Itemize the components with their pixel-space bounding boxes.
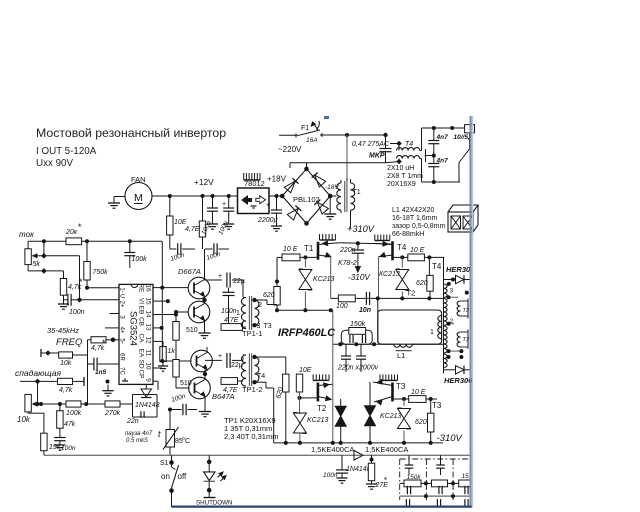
svg-text:*: * bbox=[78, 222, 82, 232]
svg-text:+: + bbox=[222, 201, 226, 208]
svg-text:FREQ: FREQ bbox=[56, 337, 83, 348]
svg-text:+18V: +18V bbox=[267, 175, 287, 184]
svg-text:1n5: 1n5 bbox=[95, 369, 107, 376]
svg-text:T3: T3 bbox=[463, 337, 470, 343]
svg-text:IRFP460LC: IRFP460LC bbox=[278, 327, 335, 339]
svg-text:10 E: 10 E bbox=[410, 247, 425, 254]
svg-text:CP: CP bbox=[138, 369, 145, 378]
svg-text:SD: SD bbox=[138, 359, 145, 368]
svg-text:100n: 100n bbox=[69, 309, 85, 316]
svg-text:KC213: KC213 bbox=[380, 413, 402, 420]
svg-text:1N4148: 1N4148 bbox=[135, 402, 160, 409]
svg-text:16-18T 1,6mm: 16-18T 1,6mm bbox=[392, 215, 438, 222]
svg-text:-310V: -310V bbox=[348, 273, 371, 282]
svg-text:F1: F1 bbox=[301, 125, 309, 132]
svg-text:15: 15 bbox=[462, 473, 470, 480]
svg-text:7C: 7C bbox=[119, 367, 125, 375]
svg-text:4,7k: 4,7k bbox=[59, 387, 73, 394]
svg-text:10k: 10k bbox=[17, 415, 31, 424]
svg-text:T2: T2 bbox=[317, 404, 327, 413]
svg-text:KC213: KC213 bbox=[307, 417, 329, 424]
svg-text:FAN: FAN bbox=[131, 175, 146, 184]
svg-text:T3: T3 bbox=[264, 323, 272, 330]
svg-text:Uxx 90V: Uxx 90V bbox=[36, 158, 73, 169]
svg-text:14: 14 bbox=[145, 310, 152, 318]
svg-text:13: 13 bbox=[145, 323, 152, 331]
svg-text:10 E: 10 E bbox=[411, 389, 426, 396]
svg-text:100n: 100n bbox=[323, 472, 338, 479]
svg-text:1,5KE400CA: 1,5KE400CA bbox=[311, 445, 354, 454]
svg-text:T1: T1 bbox=[304, 244, 314, 253]
svg-text:4,7E: 4,7E bbox=[223, 387, 238, 394]
svg-text:270k: 270k bbox=[104, 410, 121, 417]
svg-text:10: 10 bbox=[145, 362, 152, 370]
svg-text:620: 620 bbox=[263, 292, 275, 299]
svg-text:SHUTDOWN: SHUTDOWN bbox=[196, 500, 232, 507]
svg-text:off: off bbox=[178, 472, 188, 481]
svg-text:K78-2: K78-2 bbox=[338, 260, 357, 267]
svg-text:5k: 5k bbox=[33, 261, 41, 268]
svg-text:Мостовой резонансный инвертор: Мостовой резонансный инвертор bbox=[36, 126, 226, 140]
svg-text:on: on bbox=[161, 472, 170, 481]
svg-text:MKP: MKP bbox=[369, 153, 385, 160]
svg-text:T1: T1 bbox=[353, 189, 361, 196]
svg-text:SG3524: SG3524 bbox=[128, 311, 139, 346]
svg-text:20к: 20к bbox=[65, 229, 78, 236]
svg-text:1k: 1k bbox=[168, 348, 176, 355]
svg-text:100n: 100n bbox=[61, 445, 76, 452]
svg-text:S1: S1 bbox=[160, 460, 169, 467]
svg-text:C: C bbox=[185, 438, 190, 445]
svg-text:2200µ: 2200µ bbox=[257, 217, 278, 224]
svg-text:EA: EA bbox=[138, 349, 145, 358]
svg-text:12: 12 bbox=[145, 336, 152, 344]
svg-text:10E: 10E bbox=[174, 219, 187, 226]
svg-text:100: 100 bbox=[336, 303, 348, 310]
svg-text:1: 1 bbox=[236, 310, 240, 317]
svg-text:1: 1 bbox=[430, 329, 434, 336]
svg-text:M: M bbox=[134, 192, 143, 204]
svg-text:220n x2000v: 220n x2000v bbox=[337, 365, 379, 372]
svg-text:15: 15 bbox=[145, 297, 152, 305]
svg-text:T4: T4 bbox=[405, 141, 413, 148]
svg-text:66-88mkH: 66-88mkH bbox=[392, 231, 424, 238]
svg-text:2X8 T 1mm: 2X8 T 1mm bbox=[387, 173, 423, 180]
svg-text:T4: T4 bbox=[257, 373, 265, 380]
svg-text:510: 510 bbox=[186, 327, 198, 334]
svg-text:L1 42X42X20: L1 42X42X20 bbox=[392, 207, 435, 214]
svg-text:20X16X9: 20X16X9 bbox=[387, 181, 416, 188]
svg-text:100k: 100k bbox=[66, 410, 82, 417]
svg-text:+: + bbox=[266, 202, 270, 209]
svg-text:L1: L1 bbox=[397, 351, 405, 360]
svg-text:1,5KE400CA: 1,5KE400CA bbox=[365, 445, 408, 454]
svg-text:~220V: ~220V bbox=[278, 145, 302, 154]
svg-text:T3: T3 bbox=[396, 382, 406, 391]
svg-text:16: 16 bbox=[145, 284, 152, 292]
svg-text:22n: 22n bbox=[126, 418, 139, 425]
svg-text:6R: 6R bbox=[119, 353, 125, 361]
svg-text:0,47 275AC: 0,47 275AC bbox=[352, 141, 390, 148]
svg-text:VI: VI bbox=[138, 298, 145, 304]
svg-text:TP1-1: TP1-1 bbox=[242, 329, 262, 338]
svg-text:4n7: 4n7 bbox=[436, 158, 449, 165]
svg-text:зазор 0,5-0,8mm: зазор 0,5-0,8mm bbox=[392, 223, 446, 230]
svg-text:4n7: 4n7 bbox=[436, 134, 449, 141]
svg-text:11: 11 bbox=[145, 350, 152, 357]
svg-text:2X10 uH: 2X10 uH bbox=[387, 165, 414, 172]
svg-text:9: 9 bbox=[145, 378, 152, 382]
svg-text:10E: 10E bbox=[299, 367, 312, 374]
svg-text:EB: EB bbox=[138, 306, 145, 315]
svg-text:35-45kHz: 35-45kHz bbox=[47, 326, 79, 335]
svg-text:10k: 10k bbox=[60, 360, 72, 367]
svg-text:спадающая: спадающая bbox=[15, 368, 62, 378]
svg-text:I OUT 5-120A: I OUT 5-120A bbox=[36, 146, 97, 157]
svg-text:T3: T3 bbox=[463, 308, 470, 314]
svg-text:10 E: 10 E bbox=[283, 246, 298, 253]
svg-text:D667A: D667A bbox=[178, 267, 201, 276]
svg-text:4+: 4+ bbox=[119, 327, 125, 334]
svg-text:RE: RE bbox=[138, 283, 145, 293]
svg-text:CA: CA bbox=[138, 333, 145, 343]
svg-text:T4: T4 bbox=[397, 243, 407, 252]
svg-text:HER30: HER30 bbox=[446, 265, 471, 274]
svg-text:*: * bbox=[79, 277, 83, 287]
svg-text:47k: 47k bbox=[64, 421, 76, 428]
svg-text:620: 620 bbox=[416, 280, 428, 287]
svg-text:HER306: HER306 bbox=[444, 376, 473, 385]
svg-text:*: * bbox=[102, 338, 106, 348]
svg-text:+12V: +12V bbox=[194, 177, 214, 187]
svg-text:*: * bbox=[384, 476, 387, 485]
svg-text:10n: 10n bbox=[359, 307, 371, 314]
svg-text:+310V: +310V bbox=[347, 224, 375, 234]
svg-text:150k: 150k bbox=[407, 474, 422, 481]
svg-text:U: U bbox=[119, 294, 125, 298]
svg-text:-310V: -310V bbox=[437, 433, 464, 444]
svg-text:1N4148: 1N4148 bbox=[346, 466, 371, 473]
svg-text:PBL102: PBL102 bbox=[293, 195, 320, 204]
svg-text:750k: 750k bbox=[93, 269, 109, 276]
svg-text:4,7E: 4,7E bbox=[185, 226, 200, 233]
svg-text:2: 2 bbox=[450, 318, 454, 325]
svg-text:mок: mок bbox=[19, 230, 35, 239]
svg-text:CB: CB bbox=[138, 317, 145, 326]
svg-text:2+: 2+ bbox=[119, 301, 125, 308]
svg-text:T2: T2 bbox=[407, 289, 416, 298]
svg-text:TP1-2: TP1-2 bbox=[242, 385, 262, 394]
svg-text:5-: 5- bbox=[119, 338, 125, 343]
svg-text:2: 2 bbox=[258, 302, 262, 309]
svg-text:3: 3 bbox=[450, 288, 454, 295]
svg-text:+: + bbox=[218, 273, 222, 280]
svg-text:0.5 mkS: 0.5 mkS bbox=[126, 438, 148, 444]
svg-text:4,7E: 4,7E bbox=[224, 317, 239, 324]
svg-text:16A: 16A bbox=[306, 137, 318, 144]
svg-text:1-: 1- bbox=[119, 287, 125, 292]
svg-text:КС213: КС213 bbox=[379, 271, 400, 278]
svg-text:пауза 4n7: пауза 4n7 bbox=[125, 431, 153, 437]
svg-text:100k: 100k bbox=[132, 256, 148, 263]
svg-text:+: + bbox=[218, 353, 222, 360]
svg-text:T4: T4 bbox=[432, 262, 442, 271]
svg-text:620: 620 bbox=[415, 419, 427, 426]
svg-text:T3: T3 bbox=[432, 401, 442, 410]
svg-text:KC213: KC213 bbox=[313, 276, 335, 283]
svg-text:2,3 40T 0,31mm: 2,3 40T 0,31mm bbox=[224, 432, 278, 441]
svg-text:10//5,: 10//5, bbox=[454, 134, 470, 141]
svg-text:150k: 150k bbox=[350, 321, 366, 328]
